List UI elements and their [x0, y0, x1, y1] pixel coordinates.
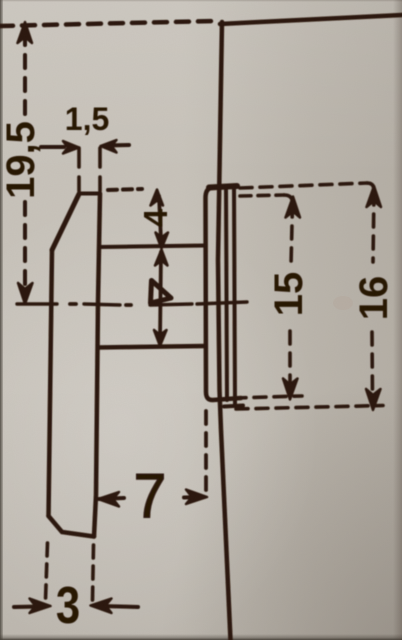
photo edge bottom [0, 634, 402, 640]
tongue bottom line [98, 346, 205, 348]
corner hook top of 15 [284, 195, 293, 202]
arrow 19,5 down [18, 283, 33, 304]
arrow 16 up [367, 186, 382, 207]
dimension line 7 vertical [160, 252, 161, 340]
dimension line 15 upper segment [291, 204, 293, 265]
dimension line 15 lower segment [288, 331, 292, 390]
arrow 7 horizontal left [98, 492, 119, 507]
extension dashes right of clip top [108, 189, 142, 190]
arrow 15 up [286, 197, 301, 218]
extension line top of 16 [240, 183, 367, 188]
extension line bottom of 15 [234, 396, 302, 398]
extension line bottom of 16 [236, 406, 383, 410]
extension line right of 1,5 [98, 148, 102, 191]
datum dashed line (top reference edge) [0, 21, 214, 26]
clip bottom chamfer and bottom face [49, 516, 95, 537]
panel front face line [218, 22, 231, 640]
arrow 16 down [366, 389, 381, 410]
arrow 15 down [283, 379, 298, 400]
arrow 1,5 right [101, 140, 117, 153]
arrow 3 right [91, 599, 112, 614]
extension line left of 3 [46, 543, 48, 600]
paper smudge [333, 296, 353, 310]
arrow 19,5 up [18, 22, 33, 43]
arrow 7 horizontal right [186, 490, 207, 505]
photo edge left [0, 0, 3, 640]
dimension line 7 horizontal left tail [99, 498, 124, 499]
extension line below rail [204, 411, 208, 492]
dimension line 1,5 right tail [106, 143, 129, 148]
arrow 7 vertical up [155, 250, 168, 266]
dimension line 3 left tail [14, 605, 40, 610]
dimension line 1,5 left tail [41, 145, 64, 149]
extension line left of 1,5 [77, 148, 81, 191]
dimension line 3 right tail [101, 606, 138, 607]
clip top face [79, 192, 100, 196]
arrow 3 left [30, 599, 51, 614]
clip right face [94, 194, 100, 537]
dimension line 16 upper segment [373, 192, 374, 262]
centre line dashes [17, 302, 247, 305]
centre line dots [70, 304, 131, 305]
extension line top of 15 [240, 195, 284, 196]
arrow 1,5 left [63, 141, 79, 154]
rail outer profile [206, 188, 242, 400]
corner hook top of 16 [367, 183, 374, 190]
arrow 4 up [151, 190, 164, 206]
label 7 vertical (handwritten rotated glyph) [151, 281, 172, 304]
photo edge top [0, 0, 402, 2]
dimension line 7 horizontal right tail [184, 495, 204, 500]
clip top chamfer [52, 194, 79, 250]
dimension line 16 lower segment [370, 332, 374, 400]
arrow 7 vertical down [154, 330, 167, 346]
dimension line 19,5 lower segment [23, 202, 27, 292]
dimension line 19,5 upper segment [23, 32, 27, 118]
extension line right of 3 [93, 545, 94, 600]
arrow 4 down [156, 233, 169, 249]
dimension line 4 [159, 196, 161, 240]
rail inner wall 2 [234, 187, 235, 404]
tongue top line [100, 246, 205, 248]
rail bottom lip [224, 406, 243, 407]
panel top edge [220, 15, 402, 24]
photo edge right [393, 0, 402, 640]
rail top cap [209, 186, 237, 188]
clip left face [49, 250, 53, 516]
rail inner wall 1 [226, 188, 227, 400]
